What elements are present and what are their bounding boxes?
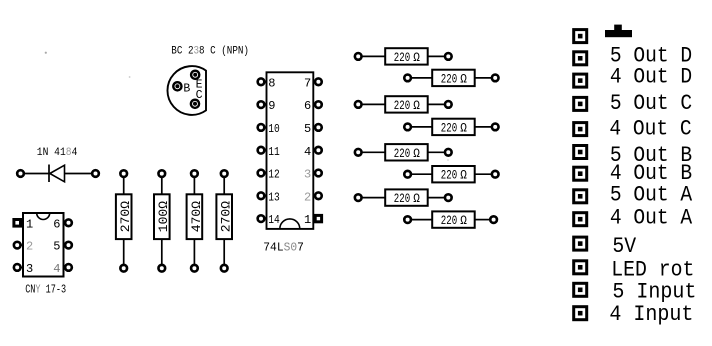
pin number 3 xyxy=(26,262,33,276)
svg-text:Ω: Ω xyxy=(413,98,420,113)
svg-text:220: 220 xyxy=(441,73,458,87)
resistor R7 220 ohm (horizontal, row 3) xyxy=(355,96,452,113)
svg-text:3: 3 xyxy=(304,168,311,182)
svg-text:C: C xyxy=(196,89,203,102)
pad 5V xyxy=(572,236,588,252)
net label 5V xyxy=(612,235,636,259)
svg-text:Ω: Ω xyxy=(413,146,420,161)
pad LED rot xyxy=(572,259,588,275)
pad 4 Out A xyxy=(572,211,588,227)
pin number 1 xyxy=(304,213,311,227)
pin number 5 xyxy=(304,122,311,136)
pad pin 2 xyxy=(315,192,322,199)
net label 5 Input xyxy=(612,280,696,305)
pin number 8 xyxy=(268,76,275,90)
resistor R9 220 ohm (horizontal, row 5) xyxy=(355,144,452,161)
pad 5 Out D xyxy=(572,50,588,66)
pin number 5 xyxy=(53,240,60,254)
pad right xyxy=(445,149,452,156)
svg-text:3: 3 xyxy=(26,262,33,276)
pad pin 5 xyxy=(65,242,72,249)
pad 4 Out C xyxy=(572,121,588,137)
wire right lead xyxy=(475,219,490,221)
pad diode cathode xyxy=(17,170,24,177)
value label 1N 4184 xyxy=(37,146,78,159)
resistor R4 270 ohm (vertical) xyxy=(216,170,233,271)
svg-text:2: 2 xyxy=(304,190,311,204)
svg-text:4: 4 xyxy=(53,262,60,276)
wire pin 1 stub xyxy=(313,218,315,220)
pad left xyxy=(404,124,411,131)
pad jumper xyxy=(572,28,588,44)
wire diode anode lead xyxy=(65,173,92,175)
wire top lead xyxy=(123,178,125,195)
part label 74LS07 xyxy=(263,243,304,255)
pin number 4 xyxy=(53,262,60,276)
wire pin 12 stub xyxy=(265,172,267,174)
pad 5 Input xyxy=(572,282,588,298)
diode D1 1N4184 xyxy=(17,146,99,182)
wire bottom lead xyxy=(161,239,163,264)
wire pin 14 stub xyxy=(265,218,267,220)
pin number 14 xyxy=(268,214,280,227)
svg-text:100Ω: 100Ω xyxy=(156,201,171,232)
pad pin 4 xyxy=(315,147,322,154)
pad left xyxy=(404,216,411,223)
resistor R1 270 ohm (vertical) xyxy=(116,170,133,271)
resistor body with value 220 ohm xyxy=(385,144,428,161)
svg-text:5: 5 xyxy=(304,122,311,136)
pin label B xyxy=(183,83,190,96)
wire right lead xyxy=(475,77,492,79)
svg-text:220: 220 xyxy=(441,169,458,183)
pin number 11 xyxy=(268,146,280,159)
svg-text:5 Out A: 5 Out A xyxy=(610,183,693,207)
svg-text:5 Out C: 5 Out C xyxy=(610,92,692,116)
svg-text:270Ω: 270Ω xyxy=(219,201,234,232)
svg-text:220: 220 xyxy=(394,52,411,66)
pad 4 Input xyxy=(572,305,588,321)
net label 5 Out D xyxy=(610,45,692,69)
svg-text:74LS07: 74LS07 xyxy=(263,243,304,255)
wire right lead xyxy=(428,55,445,57)
wire left lead xyxy=(362,103,385,105)
pad 4 Out B xyxy=(572,166,588,182)
svg-text:4 Out D: 4 Out D xyxy=(610,66,692,90)
svg-text:14: 14 xyxy=(268,214,280,227)
pad pin 7 xyxy=(315,78,322,85)
pad pin 6 xyxy=(65,219,72,226)
pin number 7 xyxy=(304,76,311,90)
resistor body with value 220 ohm xyxy=(385,189,428,206)
net label 4 Input xyxy=(609,302,693,327)
IC U2 74LS07 (14-pin DIP mounted upside down) xyxy=(258,72,323,254)
pad bottom xyxy=(191,265,198,272)
resistor R3 470 ohm (vertical) xyxy=(187,170,204,271)
pad pin 13 xyxy=(258,192,265,199)
svg-text:7: 7 xyxy=(304,76,311,90)
svg-text:1N 4184: 1N 4184 xyxy=(37,146,78,159)
pad pin 2 xyxy=(14,242,21,249)
svg-text:220: 220 xyxy=(394,193,411,207)
pad right xyxy=(490,216,497,223)
pad pin 3 xyxy=(14,264,21,271)
net label 4 Out D xyxy=(610,66,692,90)
pin number 2 xyxy=(304,190,311,204)
wire left lead xyxy=(362,151,385,153)
wire top lead xyxy=(223,178,225,195)
pad 5 Out A xyxy=(572,188,588,204)
wire pin 3 stub xyxy=(21,266,24,268)
body outline with pin-1 notch xyxy=(23,213,64,277)
svg-text:10: 10 xyxy=(268,123,280,136)
pad 4 Out D xyxy=(572,73,588,89)
resistor R6 220 ohm (horizontal, row 2) xyxy=(404,70,498,87)
pad top xyxy=(191,170,198,177)
resistor body with value 220 ohm xyxy=(385,96,428,113)
pad pin 10 xyxy=(258,124,265,131)
pad left xyxy=(355,101,362,108)
pad bottom xyxy=(221,265,228,272)
pad collector C xyxy=(191,100,199,108)
net label 4 Out C xyxy=(609,118,691,142)
resistor R10 220 ohm (horizontal, row 6) xyxy=(404,166,498,183)
pin number 3 xyxy=(304,168,311,182)
svg-text:BC 238 C (NPN): BC 238 C (NPN) xyxy=(171,44,249,57)
wire right lead xyxy=(428,151,445,153)
svg-text:Ω: Ω xyxy=(460,213,467,228)
wire diode cathode lead xyxy=(25,173,50,175)
pad pin 1 (square) xyxy=(314,214,323,223)
pad bottom xyxy=(158,265,165,272)
svg-text:2: 2 xyxy=(26,240,33,254)
wire right lead xyxy=(428,197,445,199)
pad diode anode xyxy=(92,170,99,177)
pin number 6 xyxy=(53,217,60,231)
pad 5 Out C xyxy=(572,96,588,112)
wire top lead xyxy=(161,178,163,195)
connector J1 pin header column xyxy=(572,28,588,321)
resistor R11 220 ohm (horizontal, row 7) xyxy=(355,189,452,206)
pad pin 6 xyxy=(315,101,322,108)
pad 5 Out B xyxy=(572,144,588,160)
svg-text:4 Out A: 4 Out A xyxy=(610,207,693,231)
wire pin 10 stub xyxy=(265,126,267,128)
svg-text:6: 6 xyxy=(304,99,311,113)
wire bottom lead xyxy=(193,239,195,264)
pin number 6 xyxy=(304,99,311,113)
pad pin 1 (square) xyxy=(12,218,22,228)
wire pin 13 stub xyxy=(265,195,267,197)
wire left lead xyxy=(362,55,385,57)
pad right xyxy=(492,75,499,82)
resistor R12 220 ohm (horizontal, row 8) xyxy=(404,211,497,228)
transistor Q1 BC 238 C (NPN), TO-92 top view xyxy=(167,44,248,114)
svg-text:220: 220 xyxy=(394,148,411,162)
pad right xyxy=(492,124,499,131)
pad top xyxy=(158,170,165,177)
pin number 4 xyxy=(304,145,311,159)
pad left xyxy=(355,194,362,201)
pad pin 8 xyxy=(258,78,265,85)
net label LED rot xyxy=(611,259,694,283)
pad right xyxy=(445,194,452,201)
wire pin 4 stub xyxy=(313,149,315,151)
svg-text:4: 4 xyxy=(304,145,311,159)
pad pin 14 xyxy=(258,215,265,222)
pad top xyxy=(120,170,127,177)
wire bottom lead xyxy=(223,239,225,264)
svg-text:1: 1 xyxy=(26,217,33,231)
svg-text:4 Out C: 4 Out C xyxy=(609,118,691,142)
resistor body with value 220 ohm xyxy=(432,211,475,228)
svg-text:5: 5 xyxy=(53,240,60,254)
pad pin 5 xyxy=(315,124,322,131)
pin label C xyxy=(196,89,203,102)
net label 5 Out A xyxy=(610,183,693,207)
svg-text:Ω: Ω xyxy=(460,168,467,183)
resistor body with value xyxy=(216,194,233,239)
svg-text:4 Input: 4 Input xyxy=(609,302,693,327)
wire pin 4 stub xyxy=(64,266,66,268)
svg-text:B: B xyxy=(183,83,190,96)
wire left lead xyxy=(412,77,433,79)
wire bottom lead xyxy=(123,239,125,264)
pad bottom xyxy=(120,265,127,272)
svg-text:CNY 17-3: CNY 17-3 xyxy=(25,283,66,297)
svg-text:9: 9 xyxy=(268,99,275,113)
net label 4 Out B xyxy=(610,162,692,186)
pin number 1 xyxy=(26,217,33,231)
net label 5 Out B xyxy=(610,144,692,168)
pad left xyxy=(355,53,362,60)
wire right lead xyxy=(428,103,445,105)
net label 5 Out C xyxy=(610,92,692,116)
wire pin 2 stub xyxy=(313,195,315,197)
wire right lead xyxy=(475,126,492,128)
pad emitter E xyxy=(191,71,199,79)
resistor body with value 220 ohm xyxy=(385,48,428,65)
pin number 9 xyxy=(268,99,275,113)
resistor body with value 220 ohm xyxy=(432,70,475,87)
wire left lead xyxy=(412,173,433,175)
pad pin 4 xyxy=(65,264,72,271)
svg-text:5V: 5V xyxy=(612,235,636,259)
pin number 12 xyxy=(268,169,280,182)
svg-text:220: 220 xyxy=(441,122,458,136)
resistor R2 100 ohm (vertical) xyxy=(154,170,171,271)
pad pin 11 xyxy=(258,147,265,154)
pin label E xyxy=(196,78,203,91)
svg-text:6: 6 xyxy=(53,217,60,231)
svg-text:220: 220 xyxy=(441,215,458,229)
resistor R5 220 ohm (horizontal, row 1) xyxy=(355,48,452,65)
wire left lead xyxy=(412,126,433,128)
TO-92 package outline xyxy=(167,66,206,115)
part label CNY 17-3 xyxy=(25,283,66,297)
svg-text:13: 13 xyxy=(268,192,280,205)
net label 4 Out A xyxy=(610,207,693,231)
pad right xyxy=(445,53,452,60)
svg-text:470Ω: 470Ω xyxy=(189,201,204,232)
wire pin 3 stub xyxy=(313,172,315,174)
pad pin 9 xyxy=(258,101,265,108)
pad left xyxy=(404,171,411,178)
jumper cap symbol xyxy=(605,25,632,38)
svg-text:270Ω: 270Ω xyxy=(118,201,133,232)
svg-text:Ω: Ω xyxy=(413,191,420,206)
pin number 13 xyxy=(268,192,280,205)
pad left xyxy=(404,75,411,82)
pin number 2 xyxy=(26,240,33,254)
pad left xyxy=(355,149,362,156)
wire left lead xyxy=(362,197,385,199)
optocoupler U1 CNY 17-3 xyxy=(12,213,71,297)
resistor body with value 220 ohm xyxy=(432,166,475,183)
svg-text:Ω: Ω xyxy=(413,50,420,65)
resistor R8 220 ohm (horizontal, row 4) xyxy=(404,119,498,136)
pad base B xyxy=(173,82,181,90)
wire pin 11 stub xyxy=(265,149,267,151)
pad top xyxy=(221,170,228,177)
svg-text:8: 8 xyxy=(268,76,275,90)
wire pin 8 stub xyxy=(265,81,267,83)
wire left lead xyxy=(412,219,433,221)
resistor body with value 220 ohm xyxy=(432,119,475,136)
wire pin 6 stub xyxy=(313,104,315,106)
svg-text:12: 12 xyxy=(268,169,280,182)
body outline with pin-1 notch xyxy=(267,72,314,229)
wire pin 1 stub xyxy=(21,222,24,224)
wire right lead xyxy=(475,173,492,175)
pin number 10 xyxy=(268,123,280,136)
wire pin 5 stub xyxy=(313,126,315,128)
svg-text:1: 1 xyxy=(304,213,311,227)
pad right xyxy=(492,171,499,178)
resistor body with value xyxy=(187,194,204,239)
pad pin 12 xyxy=(258,170,265,177)
wire pin 6 stub xyxy=(64,222,66,224)
wire pin 2 stub xyxy=(21,244,24,246)
wire top lead xyxy=(193,178,195,195)
svg-text:Ω: Ω xyxy=(460,72,467,87)
wire pin 7 stub xyxy=(313,81,315,83)
svg-text:Ω: Ω xyxy=(460,121,467,136)
pad right xyxy=(445,101,452,108)
diode symbol (cathode bar + triangle) xyxy=(49,165,65,183)
pad pin 3 xyxy=(315,170,322,177)
svg-text:11: 11 xyxy=(268,146,280,159)
wire pin 5 stub xyxy=(64,244,66,246)
svg-text:220: 220 xyxy=(394,100,411,114)
resistor body with value xyxy=(116,194,133,239)
resistor body with value xyxy=(154,194,171,239)
wire pin 9 stub xyxy=(265,104,267,106)
part label BC 238 C (NPN) xyxy=(171,44,249,57)
